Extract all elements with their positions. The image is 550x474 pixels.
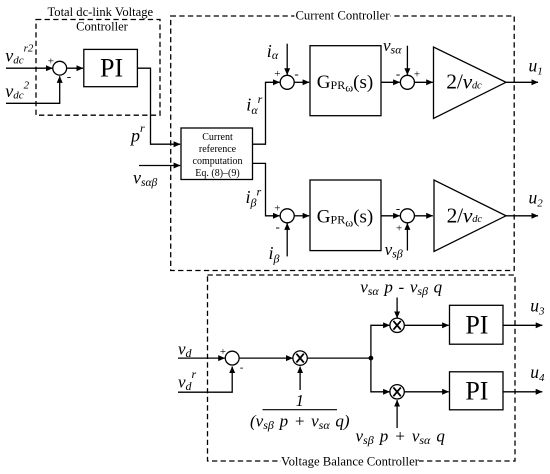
block GPR1 (proportional resonant controller alpha) bbox=[310, 46, 381, 116]
block PI1 (total dc-link voltage PI) bbox=[84, 49, 138, 86]
svg-text:PI: PI bbox=[100, 54, 123, 83]
wire: T1 output u_1 bbox=[506, 81, 538, 83]
svg-text:Eq. (8)–(9): Eq. (8)–(9) bbox=[195, 168, 239, 179]
svg-text:u1: u1 bbox=[529, 55, 543, 77]
gain triangle T1 (2/v_dc) bbox=[434, 47, 507, 119]
svg-text:-: - bbox=[396, 66, 400, 81]
wire: junction up to multiplier M2 bbox=[371, 325, 390, 358]
summer S2 (alpha current error) bbox=[280, 75, 294, 89]
wire: i_beta up into S4 bbox=[286, 223, 288, 256]
svg-text:+: + bbox=[48, 55, 54, 67]
block GPR2 (proportional resonant controller beta) bbox=[310, 180, 381, 251]
wire: i_alpha down into S2 bbox=[286, 44, 288, 75]
svg-text:+: + bbox=[274, 202, 280, 214]
wire: v_d^r feedback into S6 bottom bbox=[178, 367, 232, 393]
svg-text:iβ: iβ bbox=[269, 243, 280, 265]
svg-text:+: + bbox=[414, 68, 420, 80]
multiplier M2 bbox=[390, 318, 404, 332]
svg-text:u3: u3 bbox=[530, 296, 545, 318]
wire: v_salpha p - v_sbeta q down into M2 bbox=[396, 298, 398, 319]
wire: S5 to gain triangle T2 bbox=[414, 215, 432, 217]
svg-text:vsβ p + vsα q: vsβ p + vsα q bbox=[356, 427, 446, 448]
svg-text:Voltage Balance Controller: Voltage Balance Controller bbox=[281, 454, 420, 468]
wire: PI1 output p^r to current reference block bbox=[137, 68, 180, 144]
gain triangle T2 (2/v_dc) bbox=[434, 180, 506, 252]
multiplier M3 bbox=[390, 385, 404, 399]
wire: v_dc^r2 input to summer S1 bbox=[6, 67, 53, 69]
svg-text:Current: Current bbox=[202, 132, 233, 143]
wire: v_sbeta p + v_salpha q up into M3 bbox=[396, 400, 398, 428]
wire: v_sbeta up into S5 bbox=[406, 223, 408, 250]
svg-text:vdr: vdr bbox=[178, 367, 197, 393]
wire: S1 to PI1 bbox=[67, 67, 83, 69]
dashed box: Total dc-link Voltage Controller bbox=[36, 20, 160, 116]
svg-text:-: - bbox=[294, 66, 298, 81]
wire: i_beta^r from block to summer S4 bbox=[253, 163, 280, 215]
svg-text:u4: u4 bbox=[530, 362, 545, 384]
multiplier M1 bbox=[293, 351, 307, 365]
svg-text:vsα p - vsβ q: vsα p - vsβ q bbox=[360, 277, 442, 298]
svg-text:+: + bbox=[220, 346, 226, 358]
label: Voltage Balance Controller title bbox=[281, 455, 419, 468]
wire: T2 output u_2 bbox=[506, 215, 538, 217]
svg-text:iα: iα bbox=[267, 41, 279, 62]
wire: v_d input to summer S6 bbox=[178, 357, 225, 359]
wire: M1 to junction node bbox=[307, 357, 371, 359]
label: Current Controller title bbox=[295, 8, 391, 22]
svg-text:Total dc-link Voltage: Total dc-link Voltage bbox=[47, 5, 153, 19]
svg-text:+: + bbox=[396, 222, 402, 234]
svg-text:Current Controller: Current Controller bbox=[295, 9, 390, 23]
wire: GPR2 to summer S5 bbox=[381, 215, 400, 217]
svg-text:Controller: Controller bbox=[76, 19, 129, 33]
summer S3 (add v_salpha) bbox=[400, 75, 414, 89]
wire: S6 to multiplier M1 bbox=[239, 357, 293, 359]
svg-text:u2: u2 bbox=[529, 187, 544, 209]
svg-text:(vsβ p + vsα q): (vsβ p + vsα q) bbox=[250, 412, 350, 433]
wire: reciprocal term up into M1 bbox=[299, 367, 301, 390]
svg-text:-: - bbox=[396, 201, 400, 216]
wire: i_alpha^r from block to summer S2 bbox=[253, 82, 280, 144]
wire: GPR1 to summer S3 bbox=[381, 81, 400, 83]
wire: M2 to PI3 bbox=[404, 324, 449, 326]
block: current reference computation bbox=[181, 128, 253, 180]
svg-text:reference: reference bbox=[199, 144, 237, 155]
svg-text:vdc2: vdc2 bbox=[5, 79, 29, 101]
dashed box: Voltage Balance Controller bbox=[208, 275, 516, 461]
svg-text:+: + bbox=[274, 68, 280, 80]
block PI3 bbox=[450, 305, 504, 344]
summer S6 (dc voltage difference error) bbox=[225, 351, 239, 365]
dashed box: Current Controller bbox=[171, 16, 515, 271]
svg-text:-: - bbox=[67, 68, 71, 83]
svg-text:pr: pr bbox=[129, 121, 145, 146]
svg-text:vsα: vsα bbox=[383, 36, 402, 57]
junction node dot bbox=[369, 356, 374, 361]
block PI4 bbox=[450, 372, 504, 410]
svg-text:vsαβ: vsαβ bbox=[133, 168, 158, 190]
svg-text:-: - bbox=[240, 361, 244, 373]
svg-text:-: - bbox=[276, 219, 280, 234]
svg-text:computation: computation bbox=[193, 156, 243, 167]
wire: PI3 output u_3 bbox=[503, 324, 542, 326]
svg-text:iαr: iαr bbox=[246, 92, 262, 117]
wire: v_salpha down into S3 bbox=[406, 46, 408, 75]
wire: PI4 output u_4 bbox=[503, 391, 542, 393]
wire: S3 to gain triangle T1 bbox=[414, 81, 432, 83]
svg-text:iβr: iβr bbox=[246, 185, 262, 210]
label: reciprocal fraction 1/(v_sbeta p + v_salpha q) bbox=[250, 391, 350, 432]
svg-text:vsβ: vsβ bbox=[385, 240, 403, 261]
wire: S2 to GPR1 bbox=[294, 81, 309, 83]
svg-text:1: 1 bbox=[296, 391, 305, 410]
svg-text:vd: vd bbox=[178, 340, 193, 361]
wire: v_dc^2 feedback into S1 bottom bbox=[6, 76, 60, 103]
wire: M3 to PI4 bbox=[404, 391, 449, 393]
wire: S4 to GPR2 bbox=[294, 215, 309, 217]
svg-text:PI: PI bbox=[465, 311, 488, 340]
wire: junction down to multiplier M3 bbox=[371, 358, 390, 392]
summer S4 (beta current error) bbox=[280, 209, 294, 223]
svg-text:PI: PI bbox=[465, 376, 488, 405]
wire: v_salphabeta input to current reference block bbox=[139, 165, 180, 167]
summer S5 (add v_sbeta) bbox=[400, 209, 414, 223]
svg-text:vdcr2: vdcr2 bbox=[5, 43, 34, 67]
summer S1 (dc-link error) bbox=[53, 61, 67, 75]
